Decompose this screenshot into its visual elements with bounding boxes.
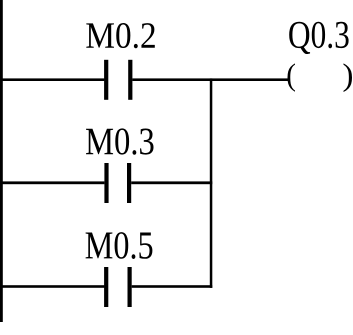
wire: rung 1 from rail to contact M0.2 <box>0 78 104 81</box>
contact M0.2 left bar <box>104 60 108 100</box>
wire: rung 3 from contact M0.5 to vertical branch <box>132 285 213 288</box>
contact M0.5 left bar <box>104 267 108 307</box>
node: branch junction on rung 1 <box>210 78 213 81</box>
label M0.2 <box>86 23 155 48</box>
contact M0.3 right bar <box>127 163 131 203</box>
left power rail <box>0 0 3 322</box>
wire: rung 2 from contact M0.3 to vertical branch <box>131 181 212 184</box>
contact M0.3 left bar <box>104 163 108 203</box>
wire: rung 3 from rail to contact M0.5 <box>0 285 104 288</box>
contact M0.5 right bar <box>128 267 132 307</box>
label M0.3 <box>86 128 154 154</box>
wire: rung 2 from rail to contact M0.3 <box>0 181 104 184</box>
wire: rung 1 from contact M0.2 to coil Q0.3 <box>132 78 288 81</box>
coil Q0.3 right parenthesis <box>344 63 353 92</box>
label Q0.3 <box>289 22 348 54</box>
label M0.5 <box>86 232 153 259</box>
wire: vertical branch joining rungs 1, 2 and 3 <box>210 81 213 288</box>
contact M0.2 right bar <box>128 60 132 100</box>
coil Q0.3 left parenthesis <box>288 63 296 91</box>
